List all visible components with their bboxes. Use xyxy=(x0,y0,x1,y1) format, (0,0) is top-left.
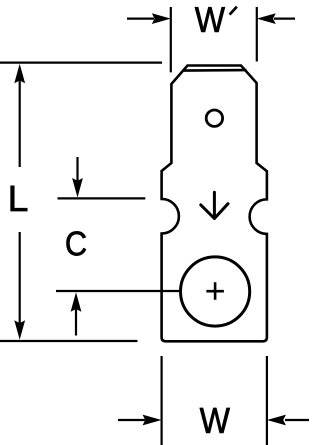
W dimension right arrow tail xyxy=(285,419,309,421)
wire barrel hole xyxy=(181,257,250,326)
C lower arrowhead xyxy=(71,292,82,312)
terminal body outline xyxy=(162,66,267,342)
W' left extension line xyxy=(170,7,172,72)
label W' xyxy=(195,7,225,32)
W right extension line xyxy=(266,356,268,445)
label L xyxy=(11,186,28,211)
L bottom extension line xyxy=(0,340,138,342)
tab hole xyxy=(206,110,222,126)
C upper arrow tail xyxy=(76,157,78,181)
L top arrowhead xyxy=(14,64,25,84)
L bottom arrowhead xyxy=(14,320,25,340)
W dimension left arrow tail xyxy=(118,419,145,421)
L top extension line xyxy=(0,61,162,63)
C lower arrow tail xyxy=(75,309,77,336)
label C xyxy=(67,231,86,255)
W' dimension left arrowhead xyxy=(152,13,171,24)
W left extension line xyxy=(161,356,163,445)
W' dimension right arrowhead xyxy=(257,13,276,24)
C upper arrowhead xyxy=(72,178,83,198)
hole center cross xyxy=(206,282,224,300)
label W' prime mark xyxy=(230,7,237,15)
C lower reference line leader to hole center xyxy=(56,290,181,292)
W' dimension right arrow tail xyxy=(274,18,295,20)
W dimension right arrowhead xyxy=(267,415,286,426)
label W xyxy=(200,408,230,433)
L dimension line upper segment xyxy=(19,80,21,167)
L dimension line lower segment xyxy=(19,232,21,324)
W' dimension left arrow tail xyxy=(127,18,154,20)
W' right extension line xyxy=(256,7,258,62)
tab tip inner fold line xyxy=(182,69,246,72)
C upper reference line xyxy=(58,197,146,199)
W dimension left arrowhead xyxy=(143,415,162,426)
stamped direction arrow xyxy=(201,192,228,218)
